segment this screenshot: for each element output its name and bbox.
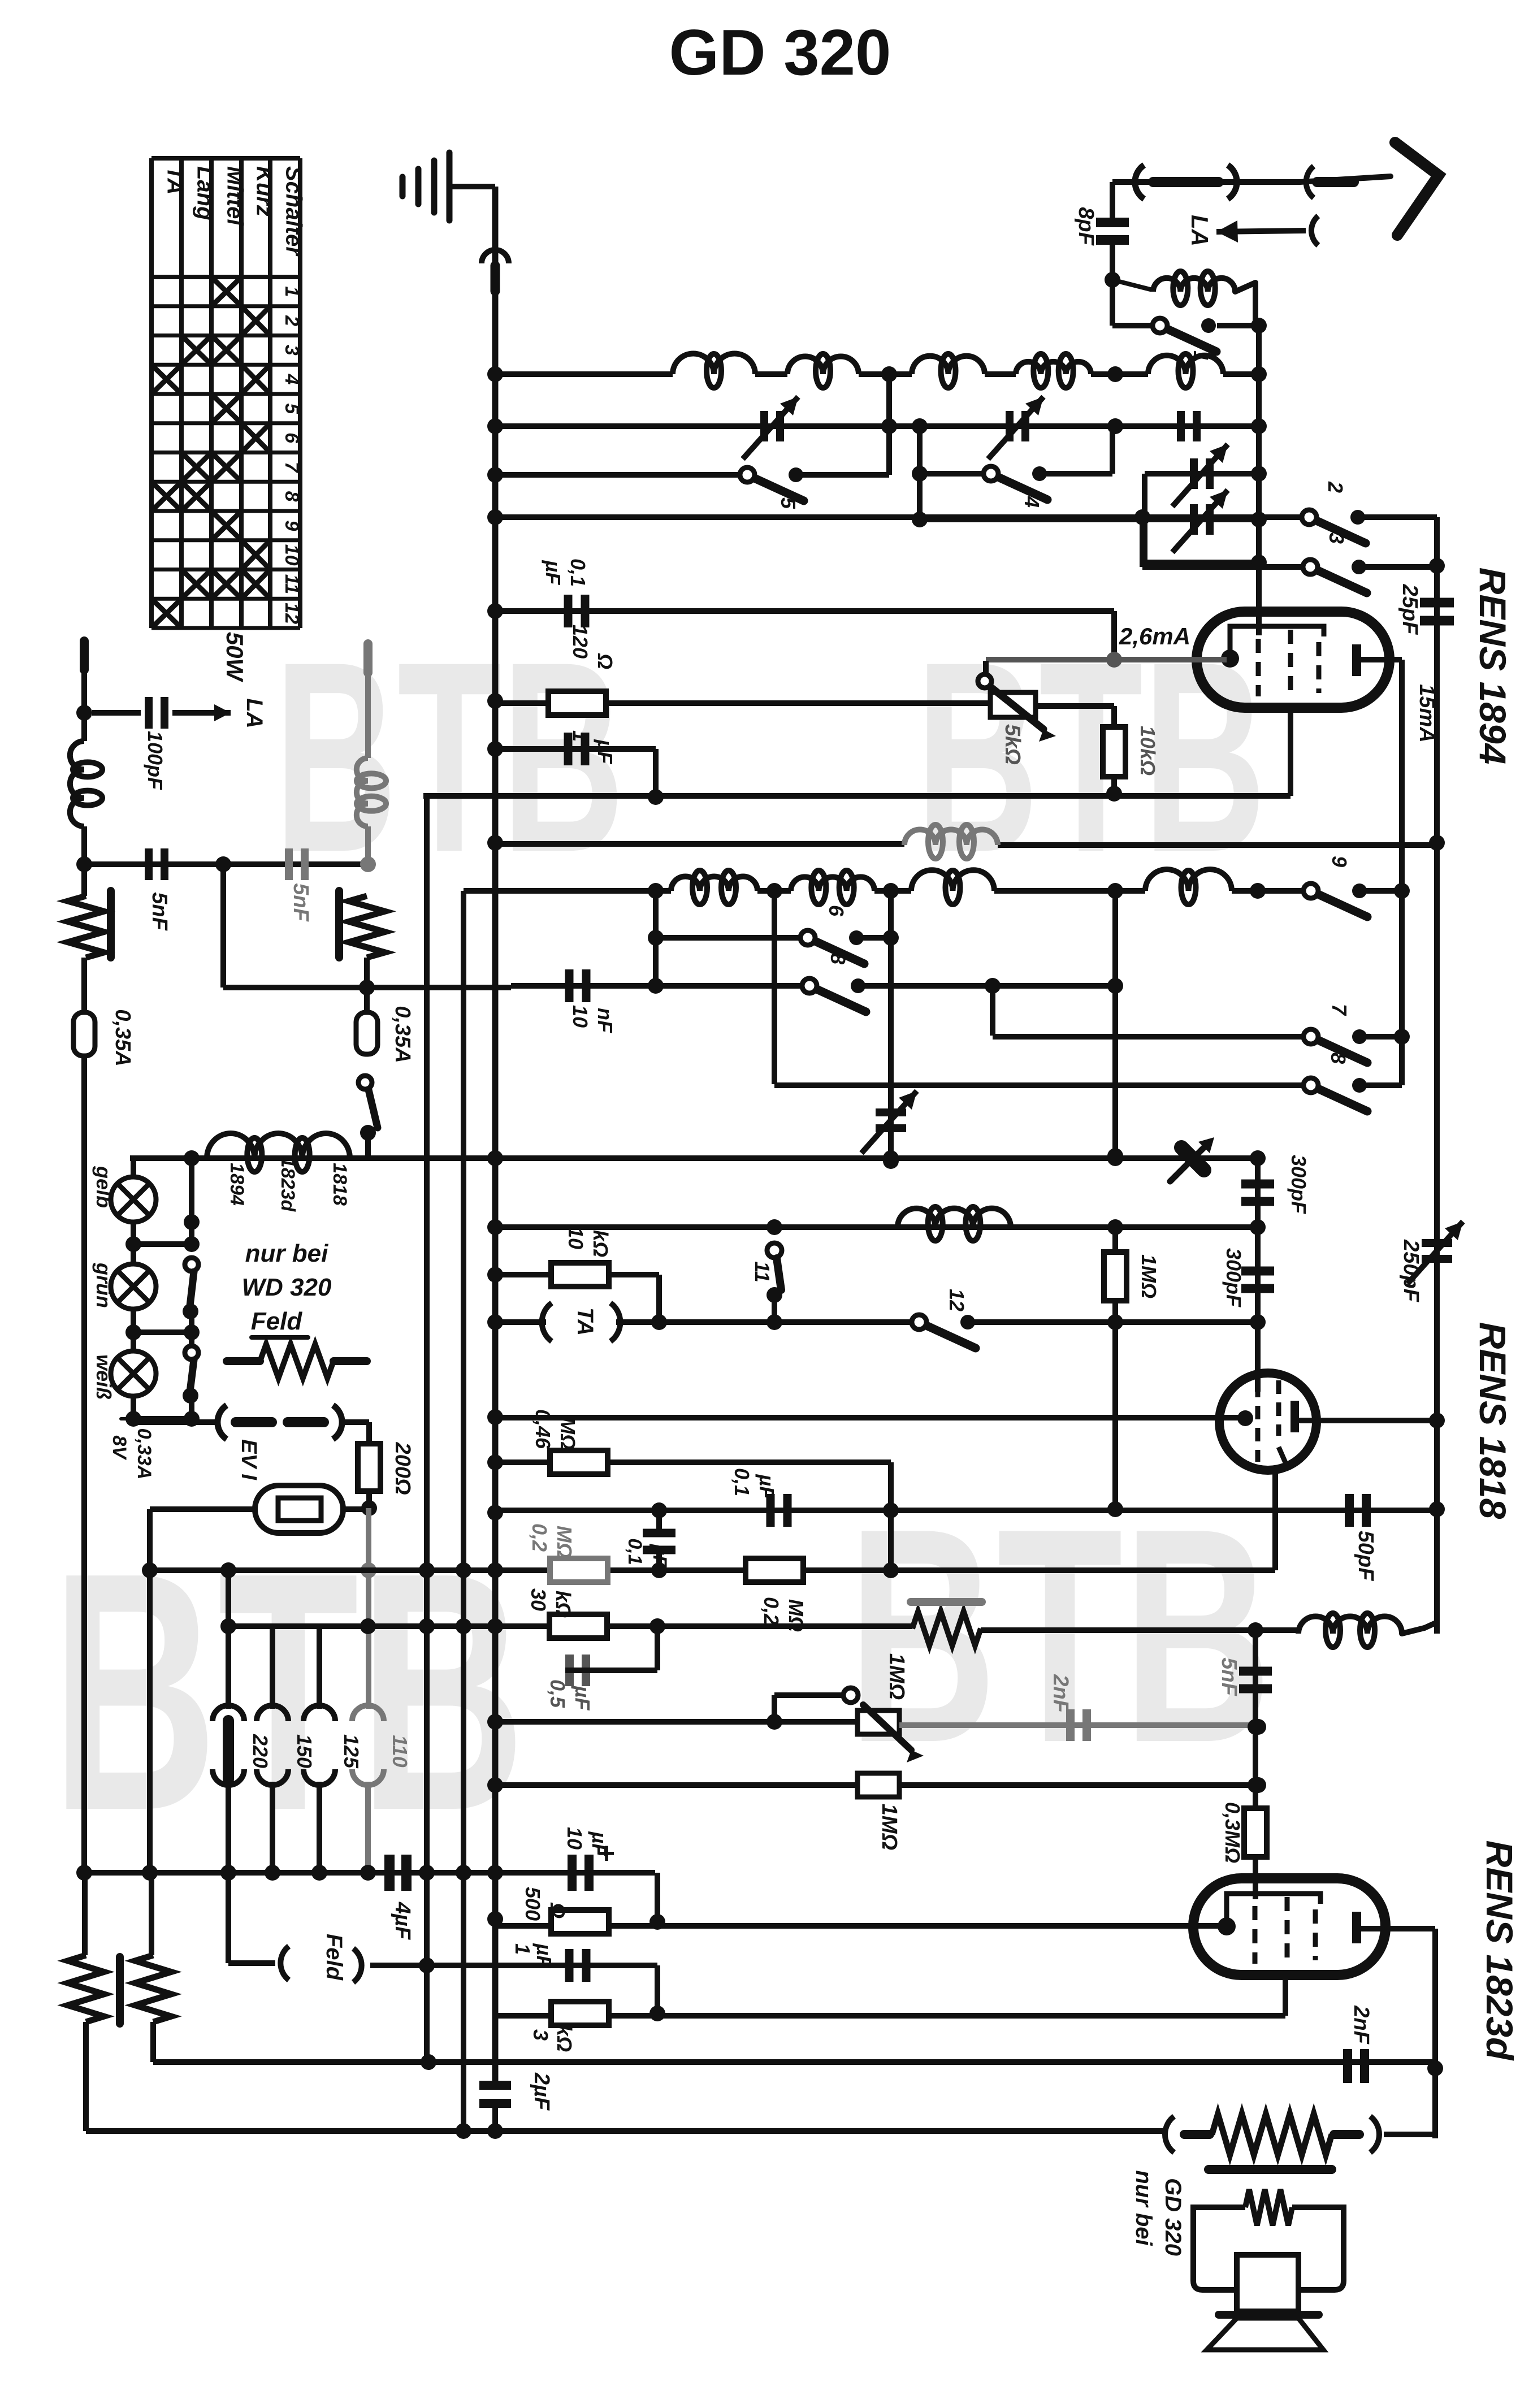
wire vert x1627 — [917, 426, 923, 519]
wire coil to grid bus — [1253, 283, 1258, 326]
svg-text:Lang: Lang — [193, 166, 218, 220]
switch 9 — [1304, 883, 1318, 898]
svg-text:8: 8 — [1327, 1053, 1350, 1064]
wire x1576 low — [888, 1462, 894, 1570]
svg-text:1894: 1894 — [226, 1163, 248, 1206]
svg-text:Mittel: Mittel — [223, 166, 248, 226]
wire lamp stub1 — [133, 1241, 192, 1247]
wire vert x1576 mid — [888, 891, 894, 1161]
svg-text:0,3MΩ: 0,3MΩ — [1221, 1802, 1244, 1863]
wire switch8b right — [1361, 1082, 1402, 1088]
svg-text:11: 11 — [281, 574, 302, 594]
capacitor 4uF — [384, 1855, 395, 1891]
wire row 1529 — [84, 861, 367, 867]
svg-text:0,1: 0,1 — [566, 558, 590, 587]
wire x1973 seg — [1112, 1227, 1118, 1252]
wire ground to bus — [449, 184, 495, 189]
wire x651 to row1529 — [365, 826, 371, 864]
wire row 2884 right — [981, 1627, 1298, 1633]
resistor 3kOhm — [551, 2002, 609, 2025]
tap 125 — [304, 1705, 335, 1721]
switch 1 — [1153, 318, 1167, 333]
tube RENS1894 — [1197, 612, 1389, 708]
jack Feld right — [353, 1948, 362, 1982]
svg-text:10: 10 — [569, 1005, 592, 1028]
wire corner x1166 — [656, 1275, 662, 1322]
svg-text:nur bei: nur bei — [1131, 2170, 1156, 2246]
svg-text:BTB: BTB — [916, 605, 1266, 908]
svg-text:10: 10 — [563, 1827, 586, 1850]
wire x149 mid — [81, 826, 87, 896]
svg-text:5: 5 — [777, 497, 800, 509]
trimmer capacitor box top — [1190, 458, 1198, 489]
svg-text:EV I: EV I — [237, 1439, 261, 1480]
svg-text:10kΩ: 10kΩ — [1136, 726, 1159, 776]
wire row 2049 — [130, 1155, 1258, 1161]
wire vert x1973 mid — [1112, 891, 1118, 1156]
wire row 1747 left — [223, 985, 511, 990]
wire row 2171 — [495, 1224, 1258, 1230]
box top — [1145, 471, 1259, 477]
resistor Feld heater — [227, 1357, 260, 1365]
wire row 915 — [495, 514, 1309, 520]
svg-text:RENS 1823d: RENS 1823d — [1479, 1840, 1521, 2061]
switch 11 — [767, 1243, 782, 1258]
svg-text:µF: µF — [588, 1831, 611, 1857]
svg-text:µF: µF — [532, 1943, 556, 1969]
wire feld row 3477 — [370, 1963, 657, 1968]
svg-text:RENS 1894: RENS 1894 — [1472, 568, 1514, 765]
speaker box — [1237, 2255, 1298, 2311]
capacitor 8pF — [1096, 218, 1129, 227]
svg-text:grün: grün — [92, 1262, 115, 1308]
antenna plug connector — [1135, 165, 1144, 199]
svg-text:1MΩ: 1MΩ — [1137, 1254, 1160, 1298]
svg-text:250pF: 250pF — [1399, 1239, 1423, 1303]
lamp weiss — [111, 1351, 156, 1396]
wire row 3770 — [464, 2128, 1165, 2134]
wire EV1 left — [150, 1506, 255, 1512]
resistor 500 Ohm — [551, 1910, 609, 1934]
switch 8b — [1304, 1078, 1318, 1093]
zigzag resistor gray row2877 — [912, 1612, 981, 1645]
wire 8pF down — [1110, 240, 1115, 326]
wire anode 1894 — [1361, 657, 1402, 662]
capacitor 25pF — [1420, 598, 1454, 608]
switch mains — [358, 1076, 372, 1089]
wire row 2339 c — [969, 1319, 1258, 1325]
svg-text:0,46: 0,46 — [531, 1409, 555, 1449]
svg-text:0,1: 0,1 — [730, 1468, 753, 1496]
switch 12 — [912, 1315, 926, 1329]
wire wiper 1M — [772, 1695, 777, 1722]
box bottom — [1145, 560, 1259, 565]
speaker bar — [1219, 2311, 1319, 2319]
svg-text:3: 3 — [281, 345, 302, 356]
wire to zigzag1 — [82, 1873, 88, 1955]
svg-text:MΩ: MΩ — [553, 1526, 576, 1558]
svg-text:25pF: 25pF — [1398, 584, 1422, 635]
svg-text:7: 7 — [1328, 1004, 1351, 1016]
svg-text:6: 6 — [825, 905, 848, 917]
svg-text:RENS 1818: RENS 1818 — [1472, 1322, 1514, 1519]
wire EV1 node down — [366, 1508, 371, 1709]
capacitor 2nF gray — [1066, 1709, 1075, 1741]
svg-text:BTB: BTB — [51, 1502, 526, 1881]
wire plug to 200 — [343, 1419, 369, 1425]
wire wiper row gray — [986, 657, 1227, 662]
svg-text:150: 150 — [293, 1734, 316, 1768]
wire lamp bottom row — [133, 1419, 216, 1425]
switch 5 — [740, 467, 755, 482]
capacitor 5nF left — [145, 848, 153, 880]
resistor 10kOhm — [1103, 727, 1125, 777]
svg-text:7: 7 — [281, 462, 302, 474]
svg-text:8V: 8V — [109, 1435, 130, 1461]
wire EV1 right — [343, 1506, 369, 1512]
svg-text:10: 10 — [564, 1227, 587, 1249]
capacitor 300pF a — [1241, 1180, 1274, 1189]
terminal stub gray — [363, 644, 373, 673]
svg-text:0,2: 0,2 — [528, 1523, 551, 1552]
svg-text:TA: TA — [573, 1307, 597, 1336]
svg-text:9: 9 — [281, 520, 302, 531]
svg-text:0,5: 0,5 — [546, 1679, 569, 1708]
wire x1973 low — [1112, 1322, 1118, 1510]
svg-text:Schalter: Schalter — [282, 166, 306, 257]
jack Feld left — [226, 1873, 231, 1963]
wire switch2 to right bus — [1359, 514, 1437, 520]
speaker cone — [1207, 2318, 1323, 2350]
wire switch3 row — [1142, 564, 1310, 570]
wire grid1818 bottom — [1272, 1470, 1278, 1570]
resistor 1MOhm row3158 — [858, 1773, 899, 1797]
svg-text:1: 1 — [281, 286, 302, 297]
wire 100pF branch — [92, 710, 141, 716]
wire corner x1160 — [653, 749, 659, 797]
svg-text:1: 1 — [569, 730, 592, 742]
svg-text:Feld: Feld — [322, 1934, 347, 1981]
wire cathode row 2507 — [495, 1415, 1242, 1420]
wire mains switch to row — [365, 1133, 371, 1158]
capacitor 50pF — [1345, 1494, 1354, 1527]
svg-text:Ω: Ω — [594, 653, 617, 669]
jack speaker right — [1334, 2130, 1359, 2139]
svg-text:5kΩ: 5kΩ — [1001, 724, 1024, 765]
svg-text:TA: TA — [163, 166, 188, 194]
coil row2171 — [898, 1209, 1011, 1227]
wire vert x1160b — [653, 891, 659, 986]
wire row 2781 — [150, 1567, 1275, 1573]
wire zig2 bottom — [150, 2022, 156, 2062]
switch lamp selector — [189, 1158, 194, 1244]
svg-text:nur bei: nur bei — [245, 1240, 328, 1267]
terminal 8V — [131, 1416, 136, 1422]
svg-text:8: 8 — [826, 953, 850, 964]
svg-text:11: 11 — [751, 1261, 774, 1282]
wire row 3562 — [495, 2013, 1285, 2019]
wire switch9 to vert — [1361, 888, 1402, 894]
svg-text:0,1: 0,1 — [624, 1538, 646, 1565]
svg-text:µF: µF — [755, 1474, 778, 1500]
svg-text:125: 125 — [340, 1734, 363, 1769]
svg-text:0,2: 0,2 — [760, 1597, 783, 1625]
wire anode 1818 — [1299, 1418, 1437, 1423]
zigzag power left — [68, 1955, 104, 2022]
svg-text:300pF: 300pF — [1222, 1248, 1245, 1307]
svg-text:220: 220 — [249, 1734, 272, 1768]
zigzag resistor right gray — [349, 896, 385, 958]
svg-text:5: 5 — [281, 403, 302, 414]
svg-text:100pF: 100pF — [144, 731, 167, 790]
wire x149 long down — [81, 1056, 87, 1873]
wire left vert x755 — [424, 796, 430, 2062]
wire row 1410 — [423, 793, 1291, 799]
wire row 754 — [495, 423, 1259, 429]
svg-text:2µF: 2µF — [530, 2072, 553, 2111]
wire row 3640 — [153, 2059, 1435, 2065]
wire x565 vert — [317, 1626, 322, 1709]
wire lamp chain top — [131, 1158, 136, 1178]
svg-text:µF: µF — [542, 560, 565, 586]
wire 25pF vert — [1434, 566, 1440, 1634]
lamp gelb — [111, 1177, 156, 1222]
node antenna coil tap — [1105, 272, 1120, 288]
wire row 1918 — [774, 1082, 1311, 1088]
tap 110 gray — [352, 1705, 384, 1721]
wire row 1325 — [495, 746, 656, 752]
junction anode bus — [1429, 835, 1445, 851]
svg-text:gelb: gelb — [92, 1166, 115, 1208]
svg-text:kΩ: kΩ — [589, 1230, 612, 1257]
capacitor 0,5uF — [565, 1655, 574, 1686]
svg-text:200Ω: 200Ω — [391, 1441, 414, 1495]
svg-text:4µF: 4µF — [391, 1902, 414, 1941]
svg-text:kΩ: kΩ — [553, 2025, 576, 2052]
svg-text:WD 320: WD 320 — [242, 1274, 332, 1301]
wire x404 feld — [226, 1873, 231, 1963]
capacitor 5nF col — [1239, 1667, 1272, 1676]
wire lamp2-3 — [131, 1309, 136, 1351]
tube RENS1823d — [1193, 1878, 1385, 1975]
svg-text:kΩ: kΩ — [552, 1591, 575, 1618]
wire bus below 2uF — [492, 2102, 498, 2131]
wire switch4 row — [920, 471, 991, 477]
wire x1166 capv — [656, 1510, 662, 1533]
svg-text:1MΩ: 1MΩ — [877, 1804, 901, 1850]
wire branch x2021 — [1140, 517, 1145, 567]
wire vert x1370 — [772, 891, 777, 1084]
svg-text:12: 12 — [945, 1289, 968, 1311]
svg-text:weiß: weiß — [92, 1354, 115, 1400]
junction 30k row — [649, 1618, 665, 1634]
trimmer capacitor x1576 — [876, 1108, 906, 1116]
trimmer 250pF — [1422, 1239, 1452, 1247]
wire x395 vert — [220, 864, 226, 988]
wire row 2672 — [495, 1508, 1437, 1513]
wire main bus vertical — [492, 187, 499, 2082]
junction x1627 — [912, 466, 928, 482]
jack speaker left — [1165, 2116, 1174, 2153]
wire x404 vert — [226, 1570, 231, 1709]
capacitor 1uF row3477 — [565, 1949, 574, 1982]
wire 10k down — [1111, 777, 1117, 794]
svg-text:LA: LA — [1186, 215, 1213, 246]
lamp gruen — [111, 1264, 156, 1309]
wire row 1832 — [993, 1034, 1311, 1040]
svg-text:GD 320: GD 320 — [1160, 2178, 1185, 2256]
capacitor 2nF bottom — [1343, 2049, 1352, 2083]
wire switch3 to bus — [1360, 564, 1437, 570]
svg-text:1823d: 1823d — [277, 1157, 298, 1212]
resistor speaker zigzag — [1212, 2114, 1332, 2155]
capacitor fixed row754 — [1177, 411, 1185, 441]
wire x149 top — [81, 667, 87, 741]
capacitor 10uF electrolytic — [568, 1855, 577, 1891]
wire wiper up — [983, 661, 989, 674]
svg-text:0,35A: 0,35A — [111, 1009, 135, 1066]
potentiometer 1MOhm — [858, 1710, 899, 1734]
wire x1971 down — [1111, 611, 1117, 661]
svg-text:120: 120 — [569, 625, 592, 659]
svg-text:1MΩ: 1MΩ — [885, 1653, 908, 1700]
capacitor 10nF — [565, 969, 574, 1002]
svg-text:0,33A: 0,33A — [133, 1428, 155, 1480]
capacitor 100pF — [145, 697, 153, 729]
wire coil to x2542 — [1402, 1628, 1424, 1634]
wire speaker right — [1384, 2132, 1435, 2137]
wire x149 fuse section — [81, 958, 87, 1012]
wire zig1 bottom — [83, 2022, 89, 2131]
wire pot to 10k — [1036, 703, 1114, 709]
svg-text:2: 2 — [1324, 481, 1347, 493]
resistor 0,2MOhm a — [550, 1558, 608, 1582]
resistor 0,2MOhm b — [746, 1558, 803, 1582]
ground — [400, 177, 406, 196]
jack TA — [542, 1303, 552, 1341]
box vert left — [1142, 474, 1147, 562]
svg-text:Ω: Ω — [546, 1902, 569, 1918]
svg-text:3: 3 — [529, 2029, 552, 2041]
coil gray row1491 — [904, 830, 998, 846]
wire lamp stub3 — [133, 1416, 192, 1422]
wire tube1894 bottom pin — [1288, 706, 1293, 796]
svg-text:Feld: Feld — [251, 1307, 303, 1335]
wire row 2339 — [495, 1319, 546, 1325]
trimmer capacitor C-a — [760, 411, 768, 441]
switch 8 — [802, 978, 817, 993]
wire switch6 row — [656, 935, 808, 941]
wire to zigzag2 — [149, 1873, 154, 1955]
capacitor 5nF gray — [285, 848, 293, 880]
zigzag power right — [135, 1955, 171, 2022]
wire anode 1823d — [1360, 1926, 1435, 1931]
potentiometer 5kOhm — [990, 692, 1036, 717]
wire row 3158 — [495, 1782, 858, 1788]
wire 200 down — [366, 1491, 372, 1508]
svg-text:2nF: 2nF — [1349, 2005, 1373, 2045]
svg-text:300pF: 300pF — [1287, 1155, 1310, 1214]
svg-text:2nF: 2nF — [1049, 1674, 1072, 1713]
wire row 3046 b — [899, 1722, 1258, 1728]
svg-text:5nF: 5nF — [1217, 1657, 1241, 1696]
wire row 3400 — [495, 1923, 1223, 1929]
svg-text:2,6mA: 2,6mA — [1119, 623, 1190, 649]
wire row 2877 — [228, 1623, 912, 1629]
wire lamp stub2 — [133, 1329, 192, 1335]
resistor 30kOhm — [549, 1614, 607, 1638]
wire row 3313 — [84, 1870, 655, 1876]
tube RENS1818 — [1219, 1373, 1317, 1470]
trimmer capacitor C-b — [1006, 411, 1014, 441]
svg-text:5nF: 5nF — [289, 883, 313, 922]
speaker coupling bar — [1209, 2165, 1332, 2174]
capacitor 1uF row1325 — [564, 733, 573, 765]
svg-text:110: 110 — [388, 1735, 412, 1767]
svg-text:LA: LA — [242, 698, 267, 728]
wire switch5 to vert — [797, 472, 889, 478]
svg-text:4: 4 — [281, 374, 302, 385]
trimmer capacitor box mid — [1190, 504, 1198, 535]
wire switch5 row — [495, 472, 747, 478]
antenna arrow — [1395, 142, 1439, 235]
corner antenna to 8pF — [1110, 182, 1115, 222]
wire vert x1573 — [886, 374, 892, 475]
svg-text:4: 4 — [1020, 496, 1043, 508]
wire lamp3 down — [131, 1396, 136, 1422]
wire to switch1 — [1112, 323, 1154, 328]
switch 4 — [984, 466, 998, 481]
wire row 3046 — [495, 1719, 858, 1725]
svg-text:3: 3 — [1325, 532, 1348, 544]
svg-text:1: 1 — [511, 1943, 534, 1955]
wire switch7 right — [1361, 1034, 1402, 1040]
wire row 1491 — [495, 841, 904, 847]
capacitor 0,1uF row2672 — [766, 1494, 775, 1527]
fuse 0,35A right — [356, 1012, 378, 1054]
svg-text:30: 30 — [527, 1588, 550, 1611]
wire row 1240 — [495, 700, 990, 706]
wire 0,5uF branch — [565, 1668, 657, 1673]
wire vert x1756 — [990, 986, 995, 1036]
wire grid bus x2227 — [1256, 326, 1262, 635]
coil antenna L1 — [1112, 280, 1150, 289]
svg-text:500: 500 — [521, 1887, 544, 1921]
wire x2225 capcol — [1255, 1158, 1261, 1392]
svg-text:50W: 50W — [222, 632, 248, 683]
resistor 120 Ohm — [548, 691, 606, 715]
fuse 0,35A left — [73, 1012, 95, 1056]
capacitor 300pF b — [1241, 1267, 1274, 1276]
transformer speaker — [1193, 2207, 1245, 2290]
table Schalter contact matrix — [149, 158, 154, 628]
svg-text:2: 2 — [281, 315, 302, 326]
switch 7 — [1304, 1029, 1318, 1044]
capacitor 0,1uF vert — [643, 1529, 675, 1538]
zigzag resistor left — [68, 896, 104, 958]
capacitor 0,1uF row1081 — [564, 595, 573, 627]
svg-text:8: 8 — [281, 491, 302, 502]
wire box mid — [920, 517, 1145, 522]
terminal stub left — [80, 641, 89, 670]
tap 150 — [257, 1705, 288, 1721]
plug connector heater — [218, 1405, 227, 1439]
wire corner 10uF — [655, 1873, 660, 1922]
wire row 2587 — [495, 1459, 891, 1465]
svg-text:10: 10 — [281, 544, 302, 566]
svg-text:Kurz: Kurz — [252, 166, 277, 216]
svg-text:MΩ: MΩ — [556, 1417, 579, 1450]
